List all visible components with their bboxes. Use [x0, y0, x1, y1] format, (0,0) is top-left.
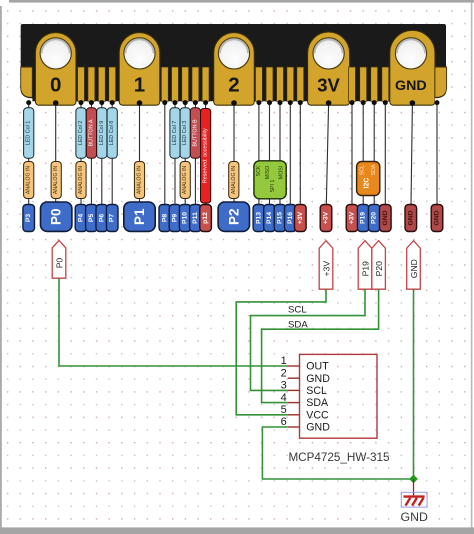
pin box P15 at x=280	[274, 205, 286, 232]
pad stripe at x=102	[98, 67, 105, 101]
pad stripe at x=290	[287, 67, 294, 101]
junction at GND	[409, 475, 418, 484]
label LED Col 7 on pin x=175	[170, 108, 180, 158]
svg-text:P7: P7	[109, 214, 116, 223]
pin box P16 at x=290	[285, 205, 297, 232]
pin box P10 at x=185	[179, 205, 191, 232]
svg-text:+3V: +3V	[297, 211, 304, 224]
svg-text:GND: GND	[306, 422, 330, 434]
svg-text:3V: 3V	[317, 75, 340, 96]
white corner wedge right of board	[435, 87, 447, 104]
ground symbol stub (red)	[413, 479, 415, 496]
svg-text:LED Col 1: LED Col 1	[26, 121, 32, 146]
top border bar	[9, 0, 474, 3]
pin box GND at x=385	[380, 205, 392, 232]
pin leads	[29, 103, 437, 206]
pin box p12 at x=206	[200, 205, 212, 232]
wire SDA net: flag P20 to U1 pin4 SDA	[262, 289, 379, 402]
pad stripe at x=81	[78, 67, 85, 101]
svg-text:+3V: +3V	[323, 211, 330, 224]
svg-text:GND: GND	[382, 210, 389, 225]
svg-text:3: 3	[281, 380, 287, 392]
pin box P4 at x=81	[75, 205, 87, 232]
big pad 2	[214, 33, 255, 106]
wire +3V net: flag +3V to U1 pin5 VCC	[236, 289, 326, 415]
right border line	[471, 3, 473, 528]
white corner wedge left of board	[20, 87, 32, 104]
big pin box P0	[41, 202, 72, 231]
svg-text:LED Col 3: LED Col 3	[182, 121, 188, 146]
pad stripe at x=300	[297, 67, 304, 101]
label LED Col 3 on pin x=185	[180, 108, 190, 158]
svg-text:0: 0	[50, 74, 61, 97]
U1 pin 2 GND stub	[288, 377, 300, 379]
svg-text:SDA: SDA	[306, 397, 329, 409]
pin box +3V at x=326	[320, 205, 332, 232]
svg-text:P20: P20	[371, 212, 378, 224]
svg-text:P0: P0	[54, 258, 64, 269]
bottom scrollbar	[0, 527, 474, 534]
svg-text:P6: P6	[98, 214, 105, 223]
svg-text:I2C: I2C	[363, 178, 370, 189]
label LED Col 1 on pin x=29	[24, 108, 34, 158]
pad stripe P3 (left bar)	[21, 67, 33, 97]
pad stripe at x=185	[182, 67, 189, 101]
pin box +3V at x=300	[295, 205, 307, 232]
svg-text:SPI 1: SPI 1	[270, 180, 276, 193]
svg-text:2: 2	[228, 74, 239, 97]
wire P0 net: flag P0 to U1 pin1 OUT	[59, 278, 288, 366]
pad stripe at x=165	[161, 67, 168, 101]
svg-text:LED Col 2: LED Col 2	[78, 121, 84, 146]
pad stripe at x=112	[109, 67, 116, 101]
pin box P9 at x=175	[169, 205, 181, 232]
pad stripe at x=259	[255, 67, 262, 101]
svg-text:ANALOG IN: ANALOG IN	[182, 166, 188, 195]
pad stripe at x=270	[266, 67, 273, 101]
svg-text:P19: P19	[360, 261, 370, 277]
svg-text:GND: GND	[401, 510, 428, 524]
svg-text:GND: GND	[407, 210, 414, 225]
pad stripe at x=352	[349, 67, 356, 101]
net label flag +3V	[319, 241, 333, 290]
svg-text:+3V: +3V	[321, 261, 331, 277]
svg-text:SCL: SCL	[288, 305, 307, 316]
U1 pin 1 OUT stub	[288, 365, 300, 367]
svg-text:5: 5	[281, 404, 287, 416]
svg-text:SDA: SDA	[371, 164, 377, 175]
pin box P6 at x=102	[96, 205, 108, 232]
svg-text:GND: GND	[395, 78, 427, 94]
svg-text:6: 6	[281, 416, 287, 428]
svg-text:P15: P15	[277, 212, 284, 224]
svg-text:2: 2	[281, 367, 287, 379]
big pin box P2	[218, 202, 249, 231]
svg-text:P13: P13	[255, 212, 262, 224]
label ANALOG IN on pin x=81	[76, 162, 86, 199]
pad stripe at x=175	[172, 67, 179, 101]
label SPI 1 group box (SCK MISO MOSI)	[254, 161, 286, 199]
pin box P20 at x=374	[368, 205, 380, 232]
pin box P8 at x=165	[159, 205, 171, 232]
svg-text:LED Col 9: LED Col 9	[99, 121, 105, 146]
label I2C group box (SCL SDA)	[357, 162, 380, 196]
svg-text:+3V: +3V	[349, 211, 356, 224]
label ANALOG IN on pin x=29	[24, 162, 34, 199]
big pad 0	[35, 33, 76, 106]
big pin box P1	[124, 202, 155, 231]
U1 pin 5 VCC stub	[288, 414, 300, 416]
pad stripe GND (right bar)	[435, 67, 447, 97]
pin box P3 at x=29	[23, 205, 35, 232]
svg-text:P4: P4	[78, 214, 85, 223]
pad stripe at x=374	[371, 67, 378, 101]
svg-text:P19: P19	[360, 212, 367, 224]
svg-text:MISO: MISO	[265, 166, 271, 179]
svg-text:GND: GND	[434, 210, 441, 225]
ground symbol selection box	[401, 492, 427, 507]
svg-text:LED Col 7: LED Col 7	[172, 121, 178, 146]
label ANALOG IN on pin x=56	[51, 162, 61, 199]
svg-text:P8: P8	[161, 214, 168, 223]
label ANALOG IN on pin x=140	[134, 162, 144, 199]
label ANALOG IN on pin x=185	[180, 162, 190, 199]
pin box P5 at x=91	[86, 205, 98, 232]
label LED Col 9 on pin x=102	[97, 108, 107, 158]
big pad 1	[119, 33, 160, 106]
svg-text:BUTTON A: BUTTON A	[88, 119, 94, 146]
net label flag P20	[372, 241, 386, 290]
pad stripe at x=206	[202, 67, 209, 101]
svg-text:4: 4	[281, 392, 287, 404]
pin box P19 at x=363	[357, 205, 369, 232]
U1 pin 4 SDA stub	[288, 402, 300, 404]
svg-text:P16: P16	[287, 212, 294, 224]
pad stripe at x=363	[360, 67, 367, 101]
svg-text:P14: P14	[266, 212, 273, 224]
svg-text:1: 1	[134, 74, 145, 97]
label ANALOG IN on pin x=234	[229, 162, 239, 199]
U1 pin 6 GND stub	[288, 426, 300, 428]
svg-text:MCP4725_HW-315: MCP4725_HW-315	[288, 451, 390, 464]
wire SCL net: flag P19 to U1 pin3 SCL	[251, 289, 366, 390]
pin box P11 at x=195	[190, 205, 202, 232]
svg-text:ANALOG IN: ANALOG IN	[78, 166, 84, 195]
big pad GND	[390, 30, 435, 105]
label BUTTON A	[86, 108, 96, 158]
svg-text:P2: P2	[226, 208, 241, 225]
left border line	[0, 6, 2, 528]
svg-text:P20: P20	[374, 261, 384, 277]
net label flag P0	[52, 240, 66, 278]
svg-text:P9: P9	[172, 214, 179, 223]
svg-text:SDA: SDA	[288, 319, 308, 330]
microbit edge connector board (black)	[21, 24, 446, 101]
ground symbol	[404, 497, 425, 506]
svg-text:BUTTON B: BUTTON B	[192, 119, 198, 147]
svg-text:GND: GND	[409, 259, 419, 278]
svg-text:SCK: SCK	[256, 165, 262, 176]
svg-text:P10: P10	[182, 212, 189, 224]
pin box GND at x=437	[431, 205, 443, 232]
svg-text:Reserved: accessibility: Reserved: accessibility	[203, 128, 209, 183]
label BUTTON B	[190, 108, 200, 158]
svg-text:SCL: SCL	[360, 165, 366, 175]
pad stripe at x=91	[88, 67, 95, 101]
wire GND net: U1 pin6 to junction	[262, 427, 413, 479]
pin box P7 at x=112	[106, 205, 118, 232]
svg-text:P0: P0	[49, 208, 64, 225]
svg-text:LED Col 8: LED Col 8	[109, 121, 115, 146]
svg-text:SCL: SCL	[306, 385, 327, 397]
svg-text:OUT: OUT	[306, 361, 329, 373]
pad stripe at x=385	[382, 67, 389, 101]
pin box GND at x=411	[405, 205, 417, 232]
big pad 3V	[308, 32, 350, 105]
label LED Col 2 on pin x=81	[76, 108, 86, 158]
pad stripe at x=280	[277, 67, 284, 101]
pin dots	[26, 100, 439, 106]
svg-text:P11: P11	[192, 212, 199, 224]
label Reserved accessibility on P12	[201, 109, 211, 204]
wire GND net: flag GND down to junction	[413, 289, 415, 479]
op IC U1 MCP4725_HW-315 body	[300, 354, 378, 438]
svg-text:MOSI: MOSI	[278, 166, 284, 179]
pin box P14 at x=270	[264, 205, 276, 232]
svg-text:VCC: VCC	[306, 409, 329, 421]
pin box P13 at x=259	[253, 205, 265, 232]
net label flag GND	[407, 241, 421, 290]
svg-text:ANALOG IN: ANALOG IN	[53, 166, 59, 195]
svg-text:P1: P1	[132, 208, 147, 225]
pin box +3V at x=352	[346, 205, 358, 232]
svg-text:GND: GND	[306, 373, 330, 385]
svg-text:1: 1	[281, 355, 287, 367]
svg-text:ANALOG IN: ANALOG IN	[137, 166, 143, 195]
pad stripe at x=195	[192, 67, 199, 101]
svg-text:ANALOG IN: ANALOG IN	[26, 166, 32, 195]
svg-text:P3: P3	[25, 214, 32, 223]
svg-text:ANALOG IN: ANALOG IN	[231, 166, 237, 195]
svg-text:P5: P5	[88, 214, 95, 223]
label LED Col 8 on pin x=112	[107, 108, 117, 158]
svg-text:p12: p12	[202, 212, 209, 224]
net label flag P19	[358, 241, 372, 290]
U1 pin 3 SCL stub	[288, 389, 300, 391]
